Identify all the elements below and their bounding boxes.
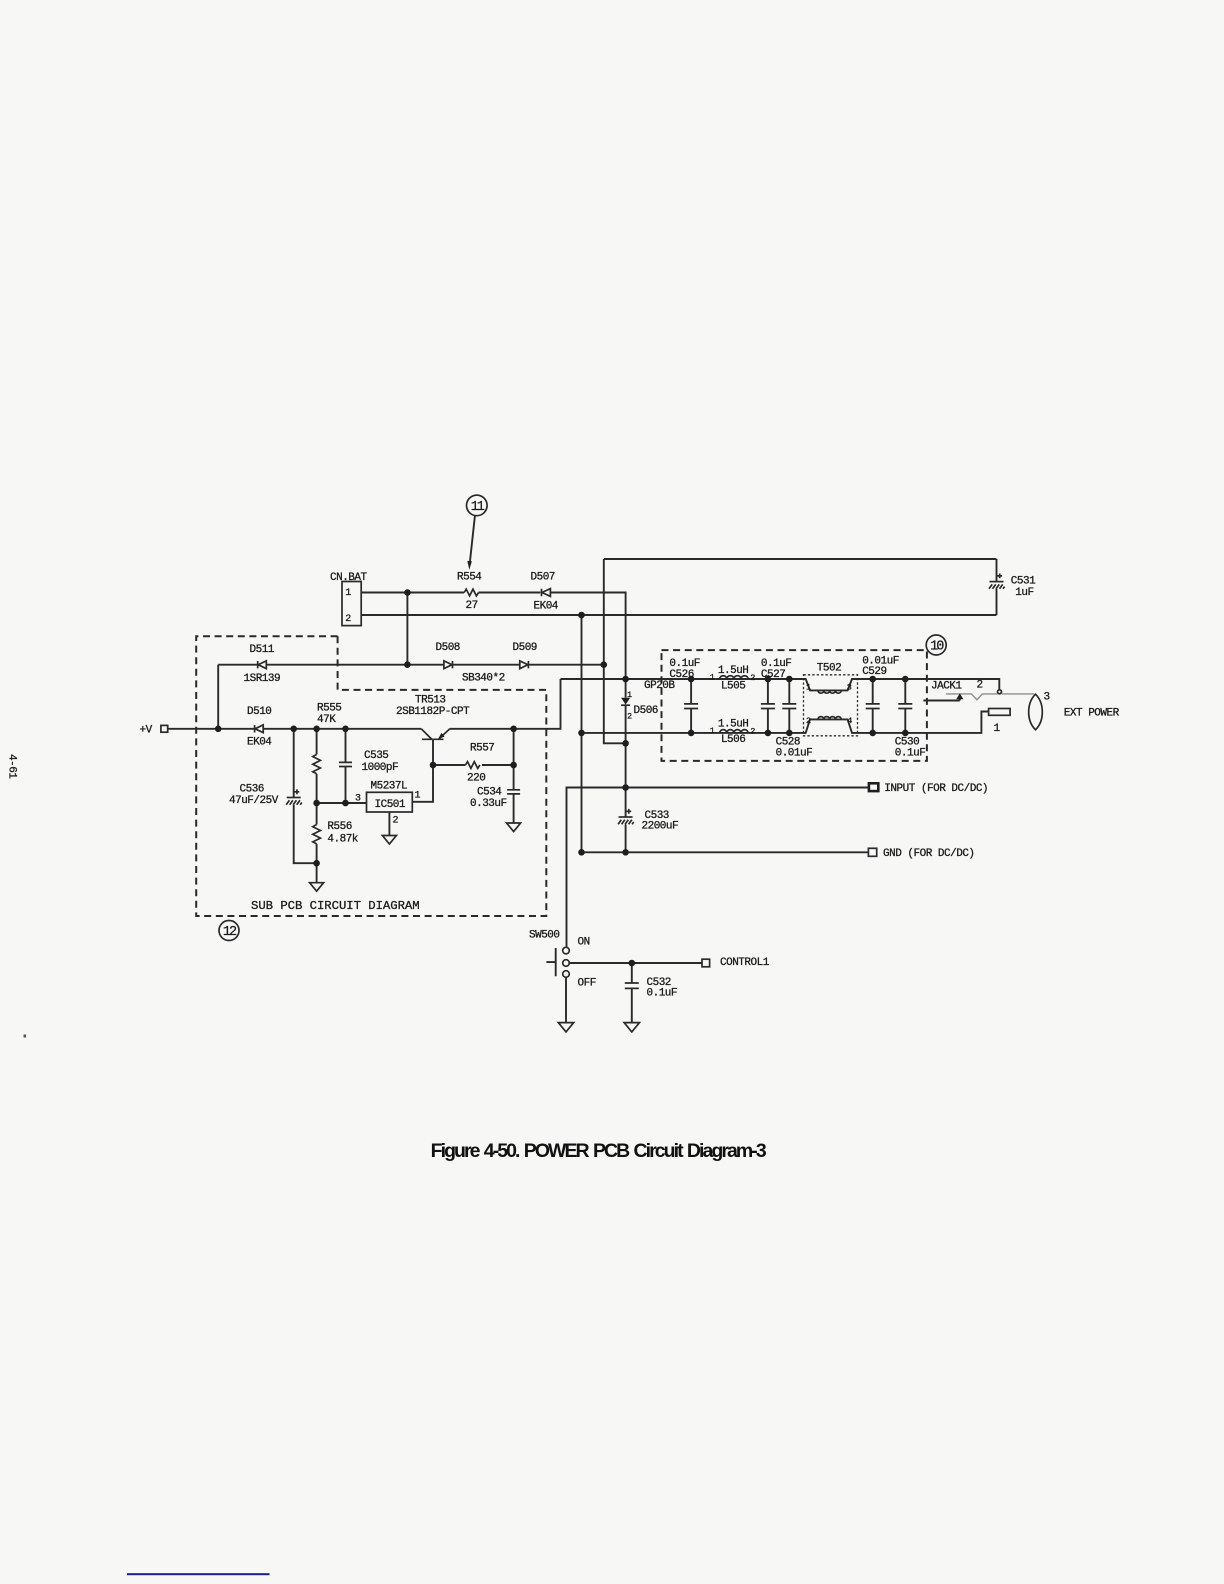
svg-text:D510: D510 (247, 706, 271, 718)
wire C536 branch (293, 729, 295, 798)
ground below IC501 pin2 (382, 836, 396, 845)
wire top rail T502 to jack (858, 679, 1000, 690)
svg-text:+V: +V (140, 725, 153, 737)
svg-text:2200uF: 2200uF (642, 821, 679, 833)
svg-text:11: 11 (471, 500, 485, 515)
svg-text:1: 1 (710, 672, 715, 682)
svg-text:2: 2 (345, 614, 351, 625)
diode D508 (444, 661, 453, 669)
transistor TR513 2SB1182P-CPT (PNP) (421, 729, 450, 740)
svg-text:4-61: 4-61 (6, 754, 18, 779)
junction node +V / D511 branch (215, 726, 222, 733)
svg-text:D506: D506 (634, 705, 658, 717)
svg-text:0.1uF: 0.1uF (647, 988, 678, 1000)
JACK1 tip lever with arrow (923, 693, 963, 700)
terminal GND (868, 848, 876, 856)
svg-text:R555: R555 (317, 703, 341, 715)
diode D510 (255, 725, 264, 733)
diode D509 (520, 661, 529, 669)
wire emitter to corner up to EXT rail (450, 679, 561, 729)
junction node rail / C526 top (688, 676, 695, 683)
svg-text:EK04: EK04 (247, 737, 272, 749)
svg-text:2: 2 (750, 726, 755, 736)
svg-text:JACK1: JACK1 (931, 680, 962, 692)
svg-text:47K: 47K (317, 714, 336, 726)
switch SW500 contacts (563, 947, 570, 977)
svg-text:2: 2 (977, 680, 983, 692)
svg-text:R556: R556 (327, 821, 351, 833)
junction node D511 / D508 (404, 661, 411, 668)
svg-text:0.1uF: 0.1uF (895, 748, 926, 760)
svg-text:1.5uH: 1.5uH (718, 665, 749, 677)
svg-text:1: 1 (710, 726, 715, 736)
wire GND (FOR DC/DC) line (582, 851, 869, 853)
svg-text:D509: D509 (513, 642, 537, 654)
svg-text:4.87k: 4.87k (327, 833, 358, 845)
wire C535 lower lead (345, 767, 347, 803)
diode D507 (542, 589, 551, 597)
wire C533 bottom to GND line (625, 824, 627, 852)
JACK1 plug barrel (EXT POWER) (1029, 694, 1043, 730)
svg-text:C530: C530 (895, 736, 919, 748)
junction node C535 / pin3 line (342, 800, 349, 807)
connector JACK1 switched contact circle (998, 690, 1002, 694)
svg-text:1: 1 (627, 690, 632, 700)
wire bottom rail T502 to jack pin1 (858, 712, 989, 733)
dashed box external power filter (10) (662, 650, 927, 761)
resistor R556 (313, 825, 321, 844)
svg-text:D507: D507 (531, 572, 555, 584)
wire top feedback line (604, 558, 997, 560)
balloon 10 (926, 635, 946, 655)
wire SW500 middle contact to CONTROL1 (569, 962, 702, 964)
svg-text:R554: R554 (457, 572, 482, 584)
bottom blue rule (127, 1573, 270, 1575)
svg-text:SB340*2: SB340*2 (462, 672, 505, 684)
junction node battery pin1 / R554 (404, 589, 411, 596)
svg-text:GND (FOR DC/DC): GND (FOR DC/DC) (883, 848, 975, 860)
svg-text:D511: D511 (250, 644, 275, 656)
svg-text:2SB1182P-CPT: 2SB1182P-CPT (396, 706, 470, 718)
svg-text:1: 1 (345, 588, 351, 599)
svg-text:C529: C529 (862, 666, 886, 678)
wire D511 to D508 (266, 664, 444, 666)
junction node +V / R555 (313, 726, 320, 733)
capacitor C529 0.01uF (866, 679, 880, 733)
svg-text:EK04: EK04 (534, 600, 559, 612)
junction node GND line start (578, 849, 585, 856)
capacitor C527 0.1uF (761, 679, 775, 733)
wire R557 right lead (482, 764, 514, 766)
balloon 12 (219, 921, 239, 941)
wire CN.BAT pin2 ground return line (361, 614, 996, 616)
ground below R556 (310, 883, 324, 892)
svg-text:C531: C531 (1011, 576, 1036, 588)
wire R554 to D507 (479, 592, 541, 594)
junction node rail / C530 top (902, 676, 909, 683)
svg-text:IC501: IC501 (375, 799, 406, 811)
wire riser from battery line to D511 line (406, 593, 408, 665)
diode D506 GP20B (vertical) (621, 698, 630, 705)
svg-text:OFF: OFF (578, 977, 596, 989)
capacitor C532 0.1uF (625, 983, 639, 988)
svg-text:L505: L505 (721, 680, 745, 692)
junction node emitter rail / C534 (510, 726, 517, 733)
svg-text:L506: L506 (721, 734, 745, 746)
svg-text:T502: T502 (817, 662, 841, 674)
wire +V terminal to D510 (168, 728, 255, 730)
wire R555 to pin3 node down to R556 (316, 774, 318, 825)
resistor R557 (466, 762, 480, 769)
capacitor C531 (1uF polarized) (989, 559, 1005, 615)
junction node GND line / C533 bottom (622, 849, 629, 856)
junction node D506 cathode / battery diode output (622, 740, 629, 747)
wire filter bottom rail (582, 732, 804, 734)
wire D507 cathode-line to corner down to D506 branch (550, 593, 625, 698)
svg-text:1: 1 (994, 723, 1001, 735)
capacitor C535 1000pF (339, 762, 352, 766)
svg-text:EXT POWER: EXT POWER (1064, 708, 1120, 720)
switch SW500 lever (546, 948, 555, 976)
wire R555 branch upper lead (316, 729, 318, 755)
svg-text:C536: C536 (240, 784, 264, 796)
junction node bottom rail start (578, 730, 585, 737)
svg-text:47uF/25V: 47uF/25V (229, 795, 279, 807)
ground below C532 (624, 1023, 639, 1032)
wire ground return riser from CN.BAT pin2 line (581, 615, 583, 852)
svg-text:C534: C534 (477, 787, 502, 799)
capacitor C530 0.1uF (898, 679, 912, 733)
svg-text:3: 3 (847, 682, 852, 692)
diode D511 (258, 661, 267, 669)
wire base lead down to IC501 pin1 (412, 739, 433, 802)
wire IC501 pin2 lead (388, 812, 390, 836)
svg-text:D508: D508 (436, 642, 460, 654)
svg-text:12: 12 (223, 925, 237, 940)
svg-text:10: 10 (930, 639, 944, 654)
wire R556 bottom lead (316, 844, 318, 883)
wire C535 branch upper lead (345, 729, 347, 762)
terminal CONTROL1 (702, 959, 710, 967)
inductor L505 1.5uH (720, 676, 748, 679)
junction node D509 output (601, 661, 608, 668)
dashed box SUB PCB CIRCUIT DIAGRAM (196, 636, 546, 916)
wire D508 to D509 (453, 664, 520, 666)
wire D506 cathode down through C533 node (625, 705, 627, 817)
stray ink dot (24, 1035, 27, 1038)
junction node rail / C526 bottom (688, 730, 695, 737)
inductor L506 1.5uH (720, 730, 748, 733)
junction node C536 return / R556 bottom (313, 860, 320, 867)
svg-text:1uF: 1uF (1015, 587, 1033, 599)
junction node battery pin2 / ground riser (578, 612, 585, 619)
svg-text:220: 220 (467, 773, 485, 785)
resistor R555 (313, 754, 321, 773)
svg-text:CONTROL1: CONTROL1 (720, 957, 770, 969)
wire D509 to junction (528, 664, 603, 666)
junction node rail / C527 bottom (765, 730, 772, 737)
svg-text:3: 3 (1044, 691, 1050, 703)
terminal +V (161, 725, 168, 732)
svg-text:2: 2 (393, 816, 399, 827)
svg-text:27: 27 (466, 600, 478, 612)
wire D510 to transistor collector (263, 728, 421, 730)
svg-text:3: 3 (355, 794, 361, 805)
junction node rail / C528 bottom (786, 730, 793, 737)
junction node rail / C527 top (765, 676, 772, 683)
svg-text:SW500: SW500 (529, 929, 560, 941)
ground below SW500 (558, 1023, 573, 1032)
svg-text:TR513: TR513 (415, 695, 446, 707)
junction node ext rail / D506 anode (622, 676, 629, 683)
op-amp regulator IC501 M5237L box (367, 792, 413, 812)
svg-text:GP20B: GP20B (644, 680, 675, 692)
wire filter top rail (561, 678, 716, 680)
junction node R555-R556 / IC501 pin3 (313, 800, 320, 807)
wire SW500 OFF contact to ground (565, 977, 567, 1022)
JACK1 movable contact with V notch (946, 694, 1034, 700)
terminal INPUT (bold square) (869, 783, 878, 791)
wire C534 branch from +V line (513, 729, 515, 790)
capacitor C536 (47uF/25V polarized) (286, 789, 302, 804)
junction node INPUT line / C533 (622, 784, 629, 791)
svg-text:M5237L: M5237L (371, 781, 408, 793)
wire C536 bottom to R556 bottom junction (294, 805, 317, 863)
junction node base / R557 left (430, 762, 437, 769)
junction node +V / C535 (342, 726, 349, 733)
svg-text:1: 1 (415, 791, 421, 802)
wire R557 left lead (433, 764, 466, 766)
capacitor C526 0.1uF (684, 679, 698, 733)
svg-text:Figure 4-50. POWER PCB Circui: Figure 4-50. POWER PCB Circuit Diagram-3 (431, 1140, 767, 1162)
svg-text:ON: ON (578, 936, 590, 948)
resistor R554 (464, 589, 478, 596)
svg-text:2: 2 (627, 712, 632, 722)
svg-text:0.33uF: 0.33uF (470, 798, 507, 810)
wire IC501 pin3 line (317, 802, 367, 804)
capacitor C528 0.01uF (782, 679, 796, 733)
wire vertical from top line down to D508/D509 output then right to D506 node (604, 559, 626, 743)
svg-text:1SR139: 1SR139 (244, 673, 281, 685)
svg-text:C535: C535 (364, 750, 388, 762)
svg-text:CN.BAT: CN.BAT (330, 572, 368, 584)
ground below C534 (507, 823, 521, 832)
svg-text:1.5uH: 1.5uH (718, 718, 749, 730)
wire CN.BAT pin1 to R554 (361, 592, 464, 594)
svg-text:SUB PCB CIRCUIT DIAGRAM: SUB PCB CIRCUIT DIAGRAM (251, 899, 420, 913)
svg-text:1000pF: 1000pF (362, 762, 399, 774)
wire riser D511 node down to +V line (217, 665, 219, 729)
connector CN.BAT box (342, 582, 361, 626)
junction node rail / C528 top (786, 676, 793, 683)
junction node +V / C536 (290, 726, 297, 733)
svg-text:0.01uF: 0.01uF (776, 748, 813, 760)
transformer T502 dotted box (804, 675, 858, 736)
junction node rail / C529 top (869, 676, 876, 683)
junction node R557 right / C534 (510, 762, 517, 769)
capacitor C533 (2200uF polarized) (618, 809, 634, 824)
svg-text:C528: C528 (776, 736, 800, 748)
wire INPUT (FOR DC/DC) line and riser to SW500 (567, 788, 869, 948)
capacitor C534 0.33uF (507, 790, 520, 794)
transformer T502 primary winding (pins 1-3) (804, 679, 858, 693)
svg-text:4: 4 (847, 716, 852, 726)
svg-text:C526: C526 (669, 669, 693, 681)
svg-text:INPUT (FOR DC/DC): INPUT (FOR DC/DC) (884, 783, 988, 795)
balloon 11 with leader arrow (467, 495, 488, 570)
wire C532 branch (631, 963, 633, 983)
svg-text:R557: R557 (470, 743, 494, 755)
svg-text:C527: C527 (761, 669, 785, 681)
svg-text:2: 2 (750, 673, 755, 683)
svg-text:1: 1 (806, 682, 811, 692)
junction node control line / C532 (629, 960, 636, 967)
JACK1 sleeve pin1 rectangle (989, 709, 1011, 716)
svg-text:2: 2 (806, 716, 811, 726)
junction node rail / C530 bottom (902, 730, 909, 737)
wire D511 anode from +V riser (218, 664, 258, 666)
transformer T502 secondary winding (pins 2-4) (804, 717, 858, 733)
junction node rail / C529 bottom (869, 730, 876, 737)
